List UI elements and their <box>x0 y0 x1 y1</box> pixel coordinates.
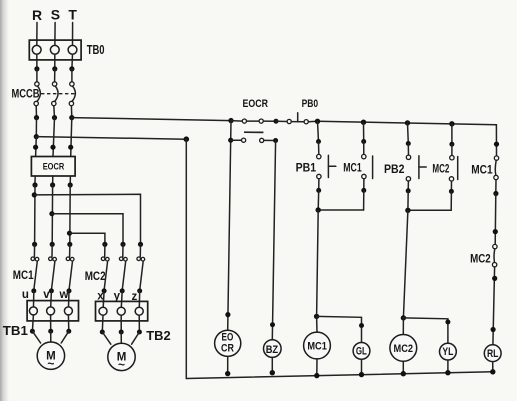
svg-text:S: S <box>51 6 60 22</box>
node R phase label <box>32 7 42 23</box>
terminal block TB2 <box>96 301 148 321</box>
wire MC1 aux merge to PB1 branch <box>316 207 364 212</box>
buzzer BZ <box>264 340 282 358</box>
relay contact EOCR label <box>242 98 268 110</box>
pushbutton PB2 bridge bar <box>419 156 426 179</box>
wire T to MC1 pole 3 <box>67 185 72 244</box>
contactor MC2 pole 2 <box>119 242 127 308</box>
wire MC2 aux merge to PB2 branch <box>405 208 451 213</box>
node u terminal label <box>22 289 29 301</box>
node z terminal label <box>132 291 138 303</box>
pushbutton PB1 NO start forward <box>316 121 321 210</box>
wire crossover T phase to MC2 pole 1 <box>70 233 105 244</box>
lamp RL red <box>484 345 501 362</box>
relay contact EOCR NC in control line <box>231 119 279 124</box>
svg-text:v: v <box>43 289 50 301</box>
wire S into EOCR <box>50 118 55 157</box>
node x terminal label <box>97 290 104 302</box>
svg-text:TB1: TB1 <box>3 323 28 338</box>
node junction control line at EOCR <box>228 118 233 123</box>
wire TB0 to MCCB S <box>52 54 57 71</box>
contact MC2 aux label <box>432 164 449 176</box>
node v terminal label <box>43 289 50 301</box>
wire branch to yellow lamp YL <box>403 318 450 343</box>
svg-text:TB0: TB0 <box>87 43 105 57</box>
wire MC2 coil to bus <box>401 361 406 376</box>
breaker MCCB linkage dashed line <box>41 93 77 95</box>
contact MC1 auxiliary holding <box>361 120 367 211</box>
wire BZ to bus <box>270 357 275 375</box>
breaker MCCB pole 3 <box>69 69 75 118</box>
node junction T below MCCB <box>69 115 74 120</box>
contactor MC1 pole 2 <box>49 242 57 307</box>
svg-text:MC2: MC2 <box>394 343 414 355</box>
wire TB1 v to motor <box>48 315 53 342</box>
terminal block TB2 label <box>146 328 170 343</box>
contact MC1 aux label <box>343 163 362 175</box>
node junction S below MCCB <box>52 115 57 120</box>
node w terminal label <box>59 289 69 301</box>
svg-text:~: ~ <box>47 356 54 370</box>
node y terminal label <box>114 290 121 302</box>
wire EOCR out S <box>50 176 55 188</box>
wire TB2 y to motor <box>119 315 124 343</box>
wire EOCR common drop to EO CR coil <box>225 121 233 331</box>
node junction top rail PB1 branch <box>315 119 320 124</box>
wire branch to green lamp GL <box>317 316 364 342</box>
relay coil EOCR (EO CR) <box>215 330 241 356</box>
contact MC2 interlock label right rail <box>470 253 491 265</box>
svg-text:MC1: MC1 <box>343 163 362 175</box>
svg-text:YL: YL <box>442 346 453 358</box>
wire TB2 z to motor <box>132 315 142 344</box>
wire right rail with MC1 contact <box>493 125 499 196</box>
svg-text:MC1: MC1 <box>13 268 34 282</box>
wire TB1 u to motor <box>30 315 41 343</box>
svg-text:BZ: BZ <box>266 344 279 356</box>
node T phase label <box>68 6 77 22</box>
svg-text:EOCR: EOCR <box>242 98 268 110</box>
svg-text:~: ~ <box>118 358 125 372</box>
wire R down to tap <box>34 118 39 140</box>
pushbutton PB2 NO start reverse <box>406 123 411 210</box>
svg-text:MC1: MC1 <box>471 165 493 177</box>
wire R into TB0 <box>36 23 38 46</box>
svg-text:EOCR: EOCR <box>43 162 65 172</box>
svg-text:GL: GL <box>356 346 367 358</box>
lamp GL green <box>353 343 370 360</box>
svg-text:MCCB: MCCB <box>12 87 40 101</box>
wire TB0 to MCCB R <box>34 54 39 71</box>
svg-text:MC2: MC2 <box>432 164 449 176</box>
contactor MC1 pole 3 <box>66 242 74 307</box>
contactor MC2 label <box>85 269 106 283</box>
motor M2 <box>108 343 135 371</box>
svg-text:TB2: TB2 <box>146 328 170 343</box>
relay contact EOCR NO alarm with overbar <box>231 132 278 143</box>
contactor MC1 pole 1 <box>31 242 39 307</box>
svg-text:T: T <box>68 6 77 22</box>
svg-text:w: w <box>59 289 69 301</box>
terminal block TB0 <box>29 40 104 60</box>
svg-text:MC2: MC2 <box>85 269 106 283</box>
wire EOCR out T <box>68 176 73 188</box>
breaker MCCB pole 1 <box>34 69 40 118</box>
wire control top rail to right corner <box>318 121 497 125</box>
node junction R below MCCB <box>34 115 39 120</box>
svg-text:PB2: PB2 <box>384 164 405 176</box>
relay EOCR overcurrent relay box <box>31 157 75 177</box>
wire alarm contact to buzzer BZ <box>270 141 276 340</box>
contactor MC2 pole 3 <box>137 242 145 308</box>
wire YL to bus <box>445 360 450 375</box>
contactor MC1 label <box>13 268 34 282</box>
wire crossover R phase to MC2 pole 3 <box>34 194 140 244</box>
contact MC1 aux bridge bar <box>372 156 374 179</box>
wire bottom bus <box>186 372 493 379</box>
lamp YL yellow <box>440 343 457 360</box>
svg-text:RL: RL <box>487 348 499 360</box>
circuit breaker MCCB label <box>12 87 40 101</box>
wire control neutral drop to bottom bus <box>185 139 187 378</box>
svg-text:MC1: MC1 <box>307 341 327 353</box>
contact MC2 aux bridge bar <box>457 157 459 180</box>
wire right rail with MC2 contact <box>491 194 498 345</box>
contact MC1 interlock label right rail <box>471 165 493 177</box>
wire MC1 coil to bus <box>314 359 319 378</box>
coil MC1 contactor coil <box>304 332 331 359</box>
wire PB1 branch down to MC1 coil <box>314 210 319 332</box>
wire control feed from T phase to EOCR contact <box>72 118 231 121</box>
wire RL to bus <box>490 362 495 375</box>
pushbutton PB1 bridge bar <box>328 155 335 177</box>
svg-text:CR: CR <box>221 343 234 355</box>
node junction top rail PB2 branch <box>405 120 410 125</box>
wire TB0 to MCCB T <box>69 54 74 71</box>
wire T into EOCR <box>68 118 73 157</box>
terminal block TB1 <box>27 301 78 321</box>
svg-text:PB0: PB0 <box>302 98 319 110</box>
wire TB1 w to motor <box>61 315 71 343</box>
wire S to MC1 pole 2 <box>49 185 54 244</box>
wire R into EOCR <box>33 137 38 157</box>
wire control neutral tap from R phase <box>36 136 189 142</box>
wire EOCR out R <box>32 176 37 188</box>
svg-text:PB1: PB1 <box>296 163 317 175</box>
pushbutton PB0 label <box>302 98 319 110</box>
wire PB2 branch down to MC2 coil <box>401 210 408 334</box>
motor M1 <box>37 342 64 370</box>
pushbutton PB1 label <box>296 163 317 175</box>
wire R to MC1 pole 1 <box>32 185 37 244</box>
svg-text:R: R <box>32 7 42 23</box>
svg-text:u: u <box>22 289 29 301</box>
node S phase label <box>51 6 60 22</box>
contactor MC2 pole 1 <box>101 242 109 308</box>
pushbutton PB2 label <box>384 164 405 176</box>
wire EO CR coil to bus <box>225 356 230 376</box>
wire GL to bus <box>359 359 364 377</box>
wire S into TB0 <box>54 23 56 46</box>
breaker MCCB pole 2 <box>52 69 58 118</box>
pushbutton PB0 NC stop button <box>276 113 318 124</box>
wire T into TB0 <box>72 23 74 46</box>
wire crossover S phase to MC2 pole 2 <box>52 214 123 245</box>
wire TB2 x to motor <box>100 315 111 344</box>
svg-text:MC2: MC2 <box>470 253 491 265</box>
contact MC2 auxiliary holding <box>449 121 455 210</box>
svg-text:EO: EO <box>222 331 234 343</box>
coil MC2 contactor coil <box>390 335 417 362</box>
terminal block TB1 label <box>3 323 28 338</box>
